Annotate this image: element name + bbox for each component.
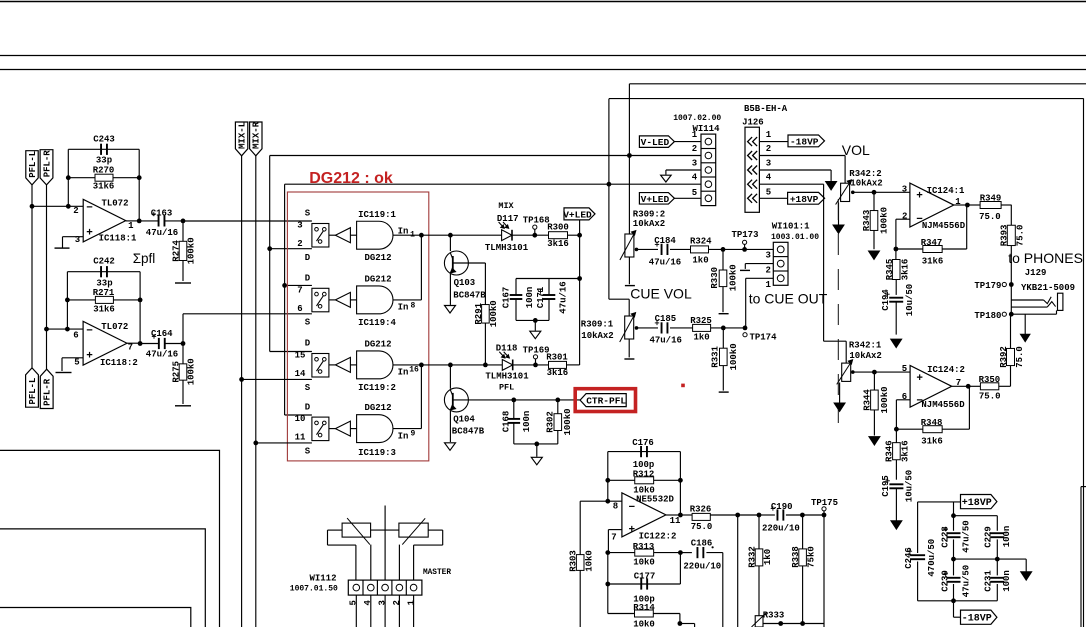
svg-text:R347: R347 xyxy=(921,238,943,248)
svg-text:75.0: 75.0 xyxy=(979,212,1001,222)
svg-text:CUE VOL: CUE VOL xyxy=(630,286,692,302)
svg-text:R346: R346 xyxy=(885,440,895,462)
svg-text:220u/10: 220u/10 xyxy=(683,561,721,571)
svg-text:+: + xyxy=(628,524,635,536)
svg-text:3: 3 xyxy=(765,251,770,261)
svg-text:MIX-L: MIX-L xyxy=(238,122,248,149)
svg-text:C171: C171 xyxy=(536,286,546,308)
svg-text:47u/50: 47u/50 xyxy=(962,565,972,597)
svg-text:+: + xyxy=(86,228,93,240)
svg-text:31k6: 31k6 xyxy=(922,257,944,267)
svg-text:100k0: 100k0 xyxy=(187,358,197,385)
svg-text:DG212: DG212 xyxy=(364,403,391,413)
svg-text:IC119:4: IC119:4 xyxy=(358,318,396,328)
svg-text:NE5532D: NE5532D xyxy=(636,495,674,505)
svg-text:4: 4 xyxy=(766,173,772,183)
svg-text:6: 6 xyxy=(73,330,78,340)
svg-text:BC847B: BC847B xyxy=(453,291,486,301)
svg-text:Σpfl: Σpfl xyxy=(133,251,156,266)
svg-text:100k0: 100k0 xyxy=(729,264,739,291)
svg-text:470u/50: 470u/50 xyxy=(927,539,937,577)
svg-text:3k16: 3k16 xyxy=(547,368,569,378)
svg-text:V-LED: V-LED xyxy=(641,137,670,148)
svg-text:D117: D117 xyxy=(497,214,519,224)
svg-text:16: 16 xyxy=(409,366,419,375)
svg-text:15: 15 xyxy=(295,351,306,361)
svg-text:100k0: 100k0 xyxy=(489,300,499,327)
svg-text:TL072: TL072 xyxy=(101,198,128,208)
svg-text:C243: C243 xyxy=(93,135,115,145)
svg-text:1007.01.50: 1007.01.50 xyxy=(290,584,338,593)
svg-text:In: In xyxy=(398,303,409,313)
svg-text:DG212 : ok: DG212 : ok xyxy=(309,170,393,187)
svg-text:DG212: DG212 xyxy=(364,340,391,350)
svg-text:10u/50: 10u/50 xyxy=(905,470,915,502)
svg-text:1k0: 1k0 xyxy=(693,332,709,342)
svg-text:+: + xyxy=(86,350,93,362)
svg-text:C190: C190 xyxy=(771,502,793,512)
svg-text:DG212: DG212 xyxy=(364,274,391,284)
svg-text:C168: C168 xyxy=(502,411,512,433)
svg-text:1: 1 xyxy=(765,280,771,290)
svg-text:R271: R271 xyxy=(93,288,115,298)
svg-text:D: D xyxy=(305,274,311,284)
svg-text:33p: 33p xyxy=(96,155,112,165)
svg-text:YKB21-5009: YKB21-5009 xyxy=(1021,283,1075,293)
svg-text:C176: C176 xyxy=(632,438,654,448)
svg-text:100k0: 100k0 xyxy=(563,408,573,435)
svg-text:47u/16: 47u/16 xyxy=(649,336,681,346)
svg-text:-18VP: -18VP xyxy=(790,136,819,147)
svg-text:IC124:2: IC124:2 xyxy=(927,365,965,375)
svg-text:3: 3 xyxy=(766,158,771,168)
svg-text:47u/16: 47u/16 xyxy=(559,281,569,313)
svg-text:R313: R313 xyxy=(633,542,655,552)
svg-text:R300: R300 xyxy=(547,223,569,233)
svg-text:1: 1 xyxy=(410,231,415,240)
svg-text:S: S xyxy=(305,383,311,393)
svg-text:TP175: TP175 xyxy=(811,498,838,508)
svg-text:B5B-EH-A: B5B-EH-A xyxy=(744,104,788,114)
svg-text:100n: 100n xyxy=(525,287,535,309)
svg-text:1: 1 xyxy=(766,130,772,140)
svg-text:In: In xyxy=(398,226,409,236)
svg-text:1007.02.00: 1007.02.00 xyxy=(673,114,721,123)
svg-text:1: 1 xyxy=(406,600,416,606)
svg-text:IC118:1: IC118:1 xyxy=(99,234,137,244)
svg-text:BC847B: BC847B xyxy=(452,426,485,436)
svg-text:WI101:1: WI101:1 xyxy=(772,221,810,231)
svg-text:75.0: 75.0 xyxy=(1015,346,1025,368)
svg-text:to PHONES: to PHONES xyxy=(1008,250,1083,266)
svg-text:PFL: PFL xyxy=(499,383,514,393)
svg-text:100n: 100n xyxy=(1002,570,1012,592)
svg-text:R303: R303 xyxy=(569,550,579,572)
svg-text:9: 9 xyxy=(410,430,415,439)
svg-text:R314: R314 xyxy=(633,603,655,613)
svg-text:VOL: VOL xyxy=(842,142,870,158)
svg-text:47u/50: 47u/50 xyxy=(962,520,972,552)
svg-text:R309:1: R309:1 xyxy=(581,319,614,329)
svg-text:R275: R275 xyxy=(172,361,182,383)
svg-text:2: 2 xyxy=(73,206,78,216)
svg-text:7: 7 xyxy=(128,343,133,353)
svg-text:1: 1 xyxy=(692,130,698,140)
svg-text:+18VP: +18VP xyxy=(790,194,819,205)
svg-text:2: 2 xyxy=(766,144,771,154)
svg-text:R309:2: R309:2 xyxy=(633,209,665,219)
svg-text:10u/50: 10u/50 xyxy=(905,284,915,316)
svg-text:1: 1 xyxy=(128,221,134,231)
svg-text:C246: C246 xyxy=(904,547,914,569)
svg-text:R392: R392 xyxy=(999,346,1009,368)
svg-text:R393: R393 xyxy=(1000,225,1010,247)
svg-text:C229: C229 xyxy=(983,526,993,548)
svg-text:2: 2 xyxy=(692,144,697,154)
svg-text:J126: J126 xyxy=(742,118,764,128)
svg-text:−: − xyxy=(86,203,93,215)
svg-text:S: S xyxy=(305,446,311,456)
svg-text:1003.01.00: 1003.01.00 xyxy=(771,233,819,242)
svg-text:R331: R331 xyxy=(711,346,721,368)
svg-text:3k16: 3k16 xyxy=(547,239,569,249)
svg-text:14: 14 xyxy=(295,369,306,379)
svg-text:75k0: 75k0 xyxy=(807,546,817,568)
svg-text:+18VP: +18VP xyxy=(962,498,992,509)
svg-text:R324: R324 xyxy=(690,236,712,246)
svg-text:D118: D118 xyxy=(496,344,518,354)
svg-text:C195: C195 xyxy=(881,475,891,497)
svg-text:TP179: TP179 xyxy=(974,281,1001,291)
svg-text:1k0: 1k0 xyxy=(763,549,773,565)
svg-text:8: 8 xyxy=(613,502,618,512)
svg-text:+: + xyxy=(916,373,923,385)
svg-text:7: 7 xyxy=(297,285,302,295)
svg-text:100k0: 100k0 xyxy=(729,343,739,370)
svg-text:100k0: 100k0 xyxy=(187,237,197,264)
svg-text:+: + xyxy=(916,191,923,203)
svg-text:75.0: 75.0 xyxy=(1016,225,1026,247)
svg-text:10k0: 10k0 xyxy=(633,558,655,568)
svg-text:−: − xyxy=(628,502,635,514)
svg-text:C167: C167 xyxy=(502,287,512,309)
svg-text:100n: 100n xyxy=(522,411,532,433)
svg-text:31k6: 31k6 xyxy=(93,182,115,192)
svg-text:R332: R332 xyxy=(747,546,757,568)
svg-text:WI112: WI112 xyxy=(309,573,336,583)
svg-text:R301: R301 xyxy=(546,353,568,363)
svg-text:MIX-R: MIX-R xyxy=(252,121,262,149)
svg-text:TP168: TP168 xyxy=(523,215,550,225)
svg-text:11: 11 xyxy=(295,433,306,443)
svg-text:R349: R349 xyxy=(980,193,1002,203)
svg-text:R342:1: R342:1 xyxy=(849,341,882,351)
svg-text:220u/10: 220u/10 xyxy=(762,524,800,534)
svg-text:C231: C231 xyxy=(983,570,993,592)
svg-text:75.0: 75.0 xyxy=(979,392,1001,402)
svg-text:3k16: 3k16 xyxy=(901,259,911,281)
svg-text:100k0: 100k0 xyxy=(880,207,890,234)
svg-text:10k0: 10k0 xyxy=(633,619,655,627)
svg-text:R345: R345 xyxy=(885,259,895,281)
svg-text:-18VP: -18VP xyxy=(962,614,992,625)
svg-text:10kAx2: 10kAx2 xyxy=(849,351,881,361)
svg-text:TLMH3101: TLMH3101 xyxy=(485,243,529,253)
svg-text:31k6: 31k6 xyxy=(921,437,943,447)
svg-text:5: 5 xyxy=(349,600,359,605)
svg-text:11: 11 xyxy=(670,516,681,526)
svg-text:C184: C184 xyxy=(654,236,676,246)
svg-text:PFL-R: PFL-R xyxy=(42,150,52,178)
svg-text:R333: R333 xyxy=(763,611,785,621)
svg-text:R343: R343 xyxy=(862,210,872,232)
svg-text:C230: C230 xyxy=(941,570,951,592)
svg-text:D: D xyxy=(305,339,311,349)
svg-text:10: 10 xyxy=(295,414,306,424)
svg-text:75.0: 75.0 xyxy=(691,522,713,532)
svg-text:3: 3 xyxy=(297,221,302,231)
svg-text:2: 2 xyxy=(297,239,302,249)
svg-text:3: 3 xyxy=(692,158,697,168)
svg-text:IC119:3: IC119:3 xyxy=(358,448,396,458)
svg-text:C228: C228 xyxy=(941,526,951,548)
svg-text:6: 6 xyxy=(297,304,302,314)
svg-text:J129: J129 xyxy=(1025,268,1047,278)
svg-text:C163: C163 xyxy=(151,208,173,218)
svg-text:4: 4 xyxy=(363,600,373,606)
svg-text:R274: R274 xyxy=(172,240,182,262)
svg-text:2: 2 xyxy=(765,265,770,275)
svg-text:In: In xyxy=(398,432,409,442)
svg-text:5: 5 xyxy=(766,187,771,197)
svg-text:DG212: DG212 xyxy=(364,253,391,263)
svg-text:47u/16: 47u/16 xyxy=(649,258,681,268)
svg-text:8: 8 xyxy=(410,302,415,311)
svg-text:2: 2 xyxy=(392,600,402,605)
svg-text:D: D xyxy=(305,253,311,263)
svg-text:3k16: 3k16 xyxy=(901,440,911,462)
svg-text:6: 6 xyxy=(902,392,907,402)
svg-text:Q103: Q103 xyxy=(454,278,476,288)
svg-text:100k0: 100k0 xyxy=(880,386,890,413)
svg-text:TL072: TL072 xyxy=(101,322,128,332)
svg-text:MASTER: MASTER xyxy=(423,569,451,577)
svg-text:R350: R350 xyxy=(979,375,1001,385)
svg-text:1k0: 1k0 xyxy=(692,255,708,265)
svg-text:7: 7 xyxy=(611,533,616,543)
svg-text:IC118:2: IC118:2 xyxy=(100,358,138,368)
svg-text:C186: C186 xyxy=(691,539,713,549)
svg-text:TP180: TP180 xyxy=(974,311,1001,321)
svg-text:S: S xyxy=(305,209,311,219)
svg-text:R325: R325 xyxy=(690,316,712,326)
svg-text:47u/16: 47u/16 xyxy=(146,228,178,238)
svg-text:PFL-L: PFL-L xyxy=(28,378,38,405)
svg-text:R312: R312 xyxy=(633,470,655,480)
svg-text:to CUE OUT: to CUE OUT xyxy=(749,290,828,306)
svg-text:IC119:1: IC119:1 xyxy=(358,210,396,220)
svg-text:S: S xyxy=(305,318,311,328)
svg-text:PFL-L: PFL-L xyxy=(28,151,38,178)
svg-text:R302: R302 xyxy=(546,411,556,433)
svg-text:In: In xyxy=(398,368,409,378)
svg-text:MIX: MIX xyxy=(498,201,514,211)
svg-text:3: 3 xyxy=(378,600,388,605)
svg-text:10k0: 10k0 xyxy=(585,550,595,572)
svg-text:C194: C194 xyxy=(881,289,891,311)
svg-text:IC124:1: IC124:1 xyxy=(927,186,965,196)
svg-text:31k6: 31k6 xyxy=(93,304,115,314)
svg-text:5: 5 xyxy=(902,364,907,374)
svg-text:10kAx2: 10kAx2 xyxy=(850,179,882,189)
svg-text:NJM4556D: NJM4556D xyxy=(921,400,965,410)
svg-text:R270: R270 xyxy=(93,165,115,175)
svg-text:C164: C164 xyxy=(151,329,173,339)
svg-text:47u/16: 47u/16 xyxy=(146,350,178,360)
svg-text:R326: R326 xyxy=(690,505,712,515)
svg-text:C185: C185 xyxy=(655,314,677,324)
svg-text:R338: R338 xyxy=(791,546,801,568)
svg-text:D: D xyxy=(305,402,311,412)
svg-text:4: 4 xyxy=(692,173,698,183)
svg-text:TP174: TP174 xyxy=(749,332,777,342)
svg-text:IC119:2: IC119:2 xyxy=(358,383,396,393)
svg-text:R348: R348 xyxy=(921,418,943,428)
svg-text:NJM4556D: NJM4556D xyxy=(922,221,966,231)
svg-text:Q104: Q104 xyxy=(453,414,475,424)
svg-text:PFL-R: PFL-R xyxy=(43,378,53,406)
svg-text:5: 5 xyxy=(692,188,697,198)
svg-text:5: 5 xyxy=(74,357,79,367)
svg-text:R330: R330 xyxy=(710,267,720,289)
svg-text:2: 2 xyxy=(902,212,907,222)
svg-text:V+LED: V+LED xyxy=(641,194,670,205)
svg-text:C177: C177 xyxy=(634,571,656,581)
svg-text:TLMH3101: TLMH3101 xyxy=(485,371,529,381)
svg-text:100n: 100n xyxy=(1002,526,1012,548)
svg-text:10kAx2: 10kAx2 xyxy=(633,219,665,229)
svg-text:V+LED: V+LED xyxy=(563,209,592,220)
svg-text:−: − xyxy=(86,325,93,337)
svg-text:C242: C242 xyxy=(93,257,115,267)
svg-text:10kAx2: 10kAx2 xyxy=(581,331,613,341)
svg-text:CTR-PFL: CTR-PFL xyxy=(586,396,626,407)
svg-text:R291: R291 xyxy=(474,302,484,324)
svg-text:IC122:2: IC122:2 xyxy=(639,532,677,542)
svg-text:TP173: TP173 xyxy=(731,230,758,240)
svg-text:3: 3 xyxy=(902,184,907,194)
svg-text:R344: R344 xyxy=(863,389,873,411)
